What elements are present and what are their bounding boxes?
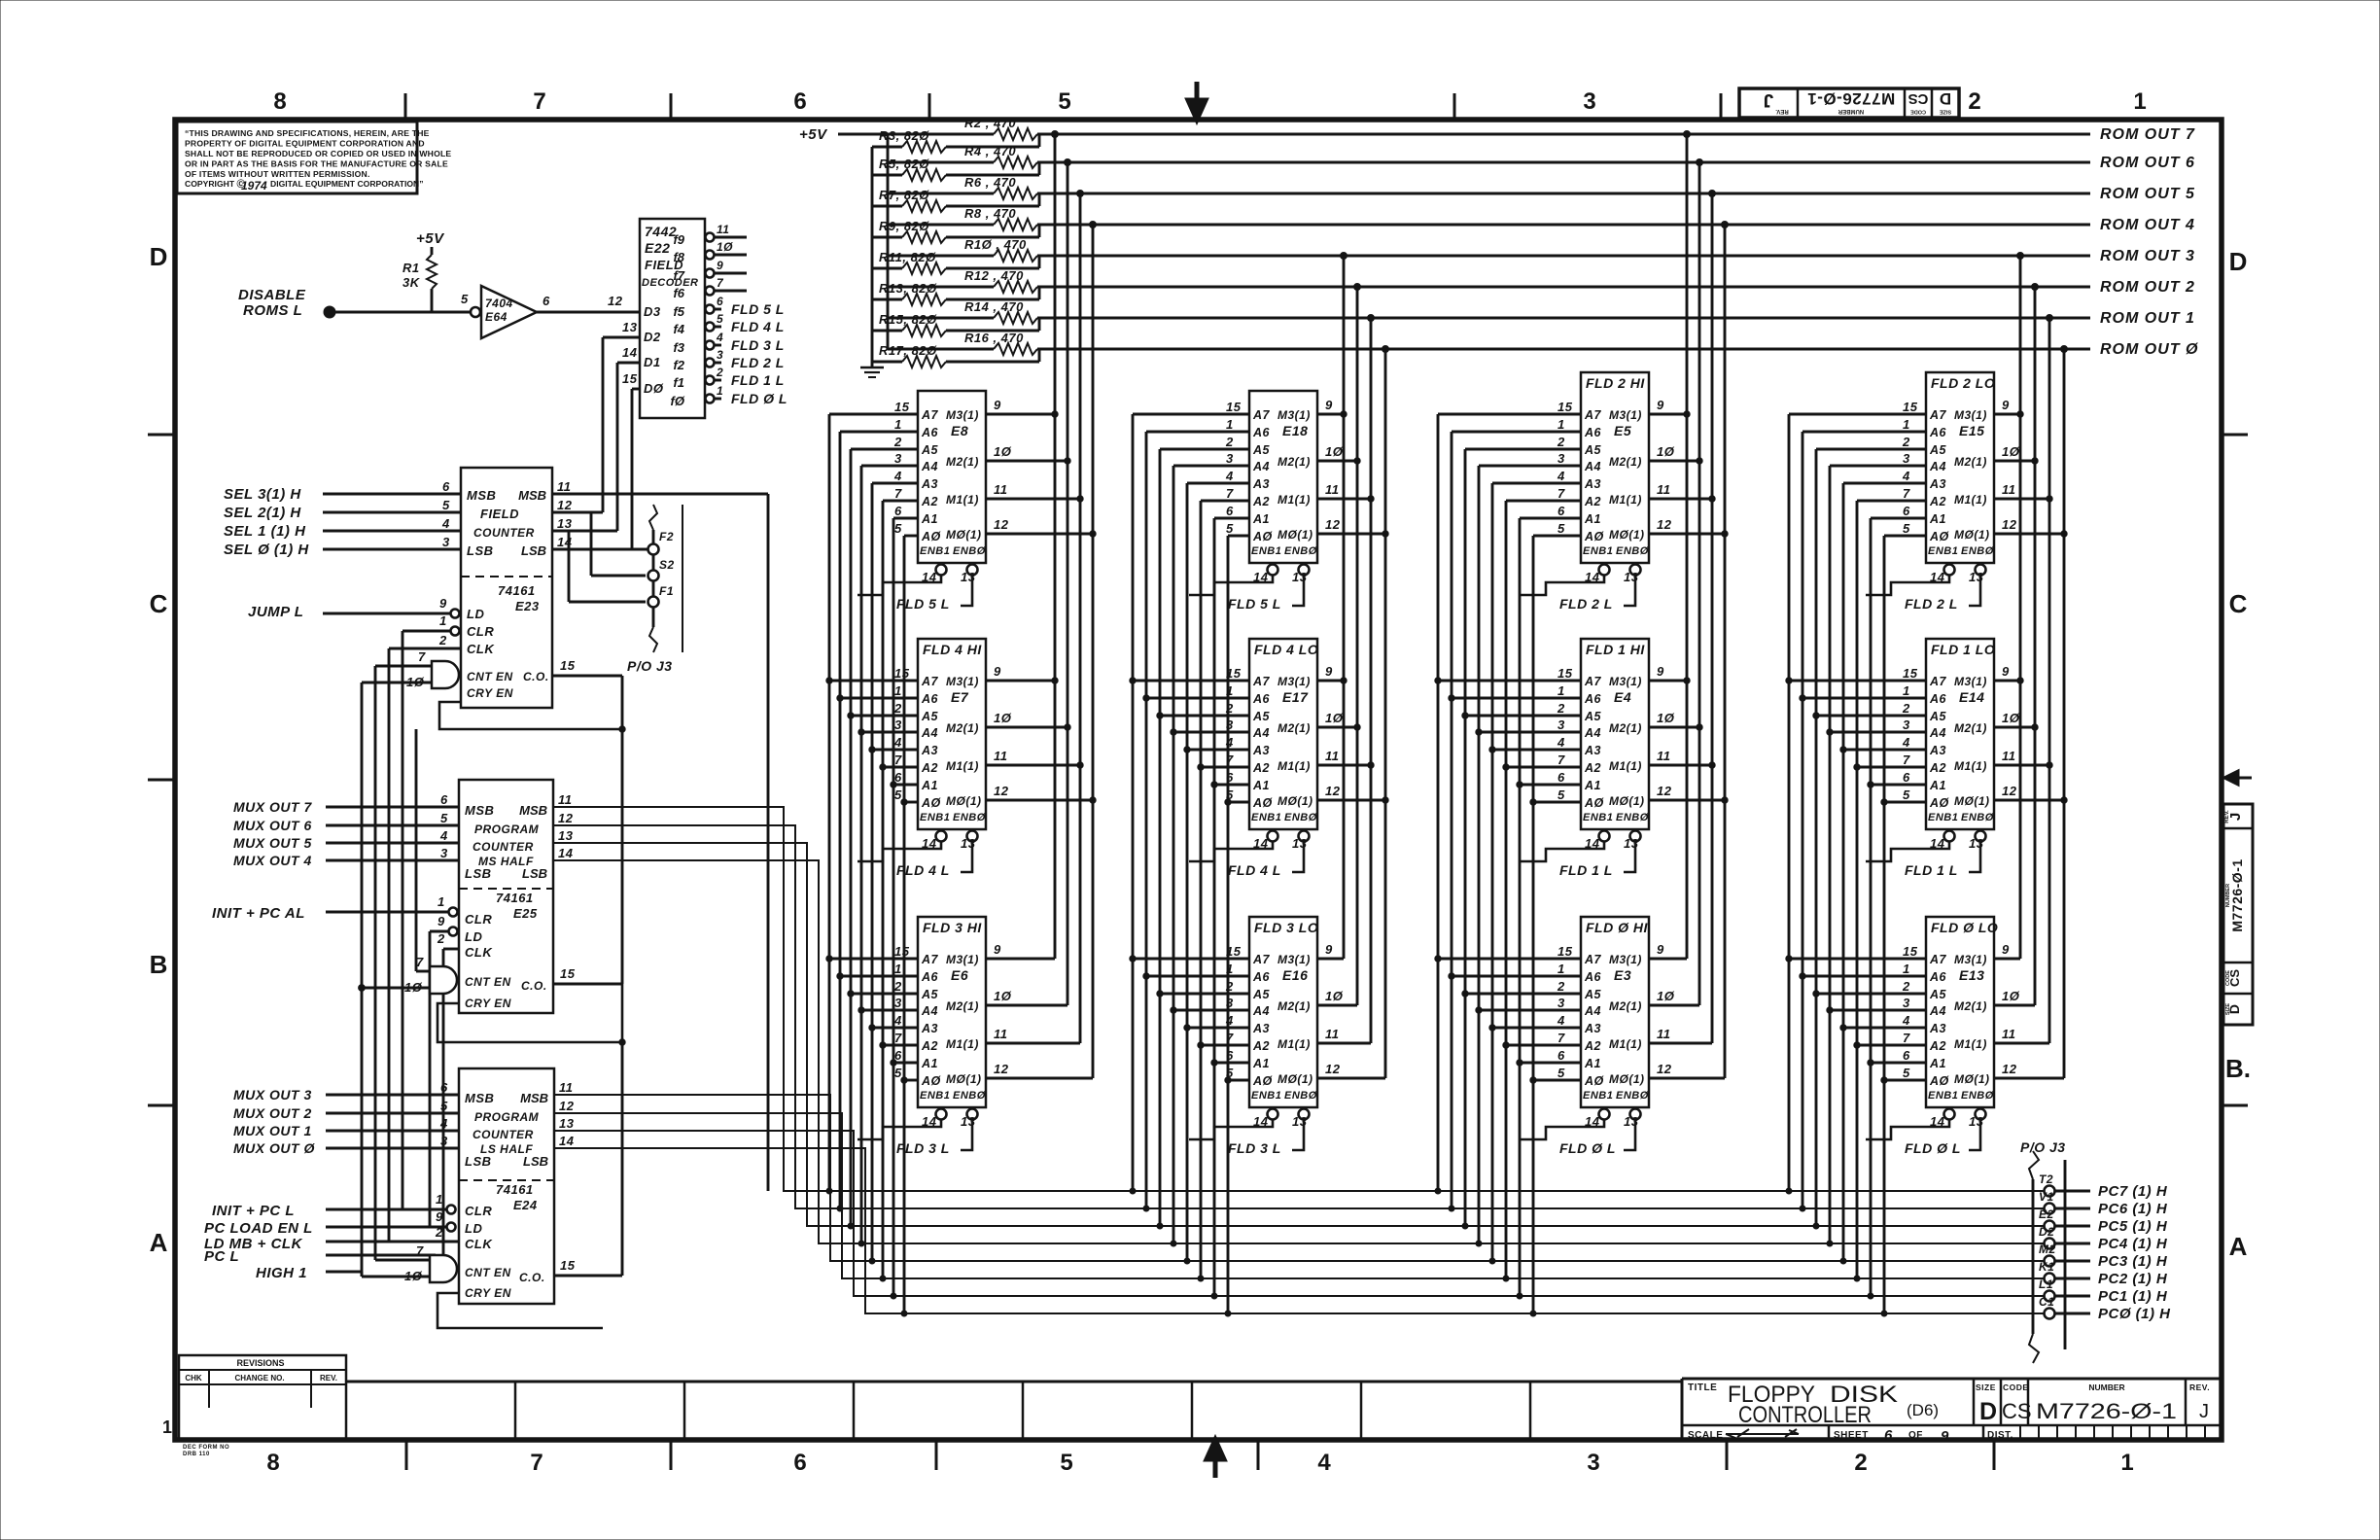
wire out M1 stub col1 row2 [986, 764, 1080, 767]
wire R5 left lead [872, 174, 902, 177]
svg-text:1Ø: 1Ø [2002, 444, 2020, 459]
svg-text:12: 12 [557, 498, 573, 512]
svg-text:DECODER: DECODER [642, 277, 699, 289]
svg-text:12: 12 [994, 784, 1009, 798]
svg-text:MØ(1): MØ(1) [1277, 1072, 1313, 1086]
svg-text:A6: A6 [921, 692, 939, 706]
wire MUX OUT &#216; [326, 1147, 459, 1150]
svg-text:A5: A5 [1584, 443, 1602, 457]
svg-text:4: 4 [1557, 469, 1565, 483]
svg-text:MØ(1): MØ(1) [1954, 528, 1990, 542]
wire PC4 staircase [553, 860, 2045, 1243]
svg-text:3: 3 [1903, 451, 1910, 466]
svg-text:M3(1): M3(1) [946, 953, 979, 966]
svg-text:C.O.: C.O. [519, 1271, 545, 1284]
svg-text:15: 15 [560, 966, 576, 981]
svg-text:1Ø: 1Ø [404, 1269, 423, 1283]
wire addr A6 stub col3 row2 [1452, 697, 1581, 700]
svg-text:9: 9 [994, 398, 1001, 412]
svg-text:M1(1): M1(1) [1954, 759, 1987, 773]
svg-text:M7726-Ø-1: M7726-Ø-1 [2229, 858, 2245, 931]
wire addr A6 stub col4 row1 [1802, 431, 1926, 434]
svg-text:A3: A3 [1252, 477, 1270, 491]
wire ROM OUT 3 row [1037, 255, 2090, 258]
wire addr A1 stub col1 row1 [893, 517, 918, 520]
svg-text:11: 11 [557, 479, 572, 494]
svg-text:3: 3 [1557, 717, 1565, 732]
svg-text:E7: E7 [951, 689, 969, 705]
wire out M1 stub col3 row2 [1649, 764, 1712, 767]
wire addr A6 stub col2 row2 [1146, 697, 1249, 700]
svg-text:ENBØ: ENBØ [1616, 812, 1649, 823]
svg-text:MØ(1): MØ(1) [946, 528, 982, 542]
connector P/O J3 (PC) [2020, 1139, 2066, 1363]
ROM E8 [857, 391, 1012, 612]
svg-text:M2(1): M2(1) [1277, 721, 1311, 735]
wire out M3 stub col3 row1 [1649, 413, 1687, 416]
wire R4 left lead [888, 161, 994, 164]
svg-text:5: 5 [1903, 1066, 1910, 1080]
svg-text:13: 13 [961, 570, 976, 584]
svg-text:ROM OUT 6: ROM OUT 6 [2100, 155, 2195, 171]
svg-text:MØ(1): MØ(1) [946, 794, 982, 808]
svg-text:MUX OUT 5: MUX OUT 5 [233, 835, 312, 851]
svg-text:13: 13 [558, 828, 574, 843]
svg-text:2: 2 [437, 931, 445, 946]
svg-text:D3: D3 [644, 304, 661, 319]
svg-text:A5: A5 [1929, 710, 1947, 723]
decoder output f4 pin 5 [673, 312, 784, 336]
svg-text:OF: OF [1908, 1430, 1923, 1441]
svg-text:M3(1): M3(1) [1609, 408, 1642, 422]
wire addr A0 stub col1 row1 [904, 535, 918, 538]
svg-text:9: 9 [1325, 942, 1333, 957]
bubble E24 CLR [447, 1206, 456, 1214]
svg-text:M7726-Ø-1: M7726-Ø-1 [2036, 1399, 2177, 1423]
wire addr A7 stub col1 row3 [829, 958, 918, 961]
svg-text:MUX OUT 6: MUX OUT 6 [233, 818, 312, 833]
wire addr A1 stub col3 row1 [1520, 517, 1581, 520]
svg-text:2: 2 [1902, 979, 1910, 994]
svg-text:E5: E5 [1614, 423, 1631, 438]
svg-text:E2: E2 [2039, 1207, 2054, 1221]
bottom strip divider [514, 1382, 517, 1440]
svg-text:1: 1 [1557, 962, 1565, 976]
wire addr A4 stub col3 row2 [1479, 731, 1581, 734]
svg-text:A6: A6 [1929, 692, 1947, 706]
wire MUX OUT 1 [326, 1130, 459, 1133]
svg-text:A7: A7 [1252, 953, 1271, 966]
resistor R13 820 [902, 294, 946, 305]
wire addr A1 stub col1 row3 [893, 1062, 918, 1065]
svg-text:9: 9 [1325, 664, 1333, 679]
svg-text:9: 9 [436, 1209, 443, 1224]
svg-text:C: C [2229, 589, 2248, 618]
svg-text:FLD Ø L: FLD Ø L [1905, 1140, 1961, 1156]
wire out M1 stub col2 row1 [1317, 498, 1371, 501]
svg-text:FLD 3 HI: FLD 3 HI [923, 920, 982, 935]
svg-text:FLD 1 LO: FLD 1 LO [1931, 642, 1995, 657]
svg-text:R9, 82Ø: R9, 82Ø [879, 219, 929, 233]
wire out M0 stub col1 row1 [986, 533, 1093, 536]
svg-text:M2(1): M2(1) [946, 721, 979, 735]
svg-text:A6: A6 [1252, 970, 1271, 984]
wire addr A1 stub col1 row2 [893, 784, 918, 787]
wire out M2 vertical col1 [1067, 162, 1069, 1005]
svg-text:M3(1): M3(1) [1954, 408, 1987, 422]
svg-text:DØ: DØ [644, 381, 664, 396]
wire addr A3 bundle col2 [1186, 483, 1189, 1261]
wire SEL 3(1) H [323, 493, 461, 496]
svg-text:9: 9 [2002, 398, 2010, 412]
svg-text:FLD 2 HI: FLD 2 HI [1586, 375, 1645, 391]
ROM E7 [857, 639, 1012, 878]
svg-text:2: 2 [1902, 435, 1910, 449]
svg-text:M2(1): M2(1) [1609, 455, 1642, 469]
wire out M0 stub col4 row1 [1994, 533, 2064, 536]
svg-text:7: 7 [894, 486, 902, 501]
wire addr A3 stub col4 row1 [1843, 482, 1926, 485]
svg-text:MUX OUT 7: MUX OUT 7 [233, 799, 312, 815]
svg-text:SHEET: SHEET [1834, 1430, 1869, 1441]
svg-text:9: 9 [437, 914, 445, 928]
wire SEL 2(1) H [323, 511, 461, 514]
svg-text:1: 1 [1903, 962, 1910, 976]
svg-text:CODE: CODE [2003, 1382, 2029, 1392]
svg-text:A1: A1 [1252, 512, 1270, 526]
wire addr A7 bundle col1 [828, 414, 831, 1191]
wire addr A7 stub col4 row3 [1789, 958, 1926, 961]
wire R12 left lead [888, 286, 994, 289]
svg-text:A6: A6 [1584, 970, 1602, 984]
svg-text:E18: E18 [1282, 423, 1308, 438]
svg-text:9: 9 [439, 596, 447, 611]
ROM E6 [857, 917, 1012, 1156]
svg-text:9: 9 [1657, 664, 1664, 679]
wire addr A4 bundle col1 [860, 466, 863, 1243]
svg-text:PCØ (1) H: PCØ (1) H [2098, 1306, 2171, 1322]
wire addr A4 stub col1 row2 [861, 731, 918, 734]
svg-text:M2(1): M2(1) [1954, 999, 1987, 1013]
svg-text:E23: E23 [515, 599, 540, 613]
svg-text:6: 6 [717, 295, 723, 308]
svg-text:B.: B. [2225, 1054, 2251, 1083]
svg-text:A3: A3 [1929, 744, 1946, 757]
svg-text:12: 12 [1325, 1062, 1341, 1076]
wire addr A0 stub col4 row3 [1884, 1079, 1926, 1082]
svg-text:15: 15 [1226, 400, 1242, 414]
svg-text:5: 5 [461, 292, 469, 306]
svg-text:12: 12 [1657, 784, 1672, 798]
resistor R1&#216; 470 [994, 250, 1037, 262]
wire out M2 vertical col4 [2034, 287, 2037, 1005]
svg-text:A7: A7 [1929, 953, 1947, 966]
wire addr A5 stub col4 row3 [1816, 993, 1926, 996]
svg-text:9: 9 [994, 942, 1001, 957]
wire PC0 staircase [554, 1148, 2045, 1313]
svg-text:SEL 3(1) H: SEL 3(1) H [224, 486, 301, 503]
svg-text:6: 6 [793, 1450, 806, 1476]
svg-text:D: D [2229, 247, 2248, 276]
svg-text:A7: A7 [921, 408, 939, 422]
svg-text:FLD 2 L: FLD 2 L [731, 355, 785, 370]
decoder output f7 pin 9 [673, 259, 747, 283]
svg-text:9: 9 [2002, 942, 2010, 957]
svg-text:A1: A1 [921, 512, 938, 526]
bottom strip divider [1529, 1382, 1532, 1440]
wire out M1 vertical col1 [1079, 193, 1082, 1043]
wire ROM OUT 7 row [1037, 133, 2090, 136]
svg-text:V1: V1 [2039, 1190, 2054, 1204]
svg-text:4: 4 [716, 331, 723, 344]
svg-text:MØ(1): MØ(1) [946, 1072, 982, 1086]
svg-text:A5: A5 [1252, 988, 1271, 1001]
wire R14 left lead [888, 317, 994, 320]
svg-text:FLD 1 HI: FLD 1 HI [1586, 642, 1645, 657]
svg-text:8: 8 [266, 1450, 279, 1476]
bubble E23 CLR [451, 627, 460, 636]
wire addr A6 bundle col2 [1145, 432, 1148, 1208]
svg-text:MSB: MSB [465, 1091, 494, 1105]
svg-text:A2: A2 [1584, 1039, 1601, 1053]
svg-text:5: 5 [1557, 521, 1565, 536]
svg-text:11: 11 [558, 792, 573, 807]
border tick top [928, 93, 931, 120]
svg-text:5: 5 [1903, 787, 1910, 802]
wire E24 CNTEN a [375, 1259, 430, 1262]
bottom strip divider [1191, 1382, 1194, 1440]
border tick bottom [1726, 1440, 1729, 1470]
wire addr A3 stub col2 row3 [1187, 1027, 1249, 1030]
svg-text:12: 12 [1657, 1062, 1672, 1076]
border tick right [2222, 1104, 2248, 1107]
wire addr A6 stub col1 row1 [840, 431, 918, 434]
svg-text:A1: A1 [921, 779, 938, 792]
svg-text:R1: R1 [402, 261, 420, 275]
bubble E25 LD [449, 927, 458, 936]
wire addr A6 stub col2 row3 [1146, 975, 1249, 978]
wire out M0 stub col3 row2 [1649, 799, 1725, 802]
wire PC3 staircase [554, 1095, 2045, 1261]
svg-text:2: 2 [1968, 88, 1980, 115]
svg-text:JUMP L: JUMP L [248, 604, 303, 620]
svg-text:E64: E64 [485, 310, 507, 324]
wire R17 left lead [872, 361, 902, 364]
svg-text:13: 13 [557, 516, 573, 531]
wire E25 CLK [443, 948, 459, 951]
wire addr A7 stub col1 row1 [829, 413, 918, 416]
svg-text:13: 13 [622, 320, 638, 334]
svg-text:12: 12 [994, 1062, 1009, 1076]
node DISABLE ROMS L [324, 306, 335, 318]
svg-text:MSB: MSB [467, 488, 496, 503]
svg-text:2: 2 [435, 1225, 443, 1240]
wire addr A2 stub col2 row2 [1201, 766, 1249, 769]
svg-text:+5V: +5V [799, 126, 828, 143]
svg-text:R17, 82Ø: R17, 82Ø [879, 343, 937, 358]
wire addr A7 stub col3 row3 [1438, 958, 1581, 961]
wire out M1 stub col4 row3 [1994, 1042, 2049, 1045]
svg-text:B: B [150, 950, 168, 979]
wire F1 tap [568, 531, 571, 602]
wire R8 left lead [888, 224, 994, 227]
svg-text:ENBØ: ENBØ [1961, 545, 1994, 557]
svg-text:3: 3 [1903, 717, 1910, 732]
svg-text:PROGRAM: PROGRAM [474, 1110, 540, 1124]
wire addr A4 stub col3 row3 [1479, 1009, 1581, 1012]
svg-text:CNT EN: CNT EN [467, 670, 513, 683]
wire addr A5 stub col2 row1 [1160, 448, 1249, 451]
svg-text:ROM OUT 5: ROM OUT 5 [2100, 186, 2195, 202]
wire addr A7 stub col4 row2 [1789, 680, 1926, 682]
wire PC2 staircase [554, 1113, 2045, 1278]
wire addr A4 stub col2 row3 [1173, 1009, 1249, 1012]
svg-text:A5: A5 [1929, 988, 1947, 1001]
wire ROM OUT 2 row [1037, 286, 2090, 289]
resistor R15 820 [902, 325, 946, 336]
svg-text:11: 11 [2002, 1027, 2016, 1041]
svg-text:3: 3 [717, 348, 723, 362]
svg-text:1: 1 [1226, 417, 1234, 432]
svg-text:15: 15 [560, 658, 576, 673]
wire out M3 stub col1 row1 [986, 413, 1055, 416]
svg-text:MSB: MSB [519, 803, 547, 818]
wire +5V feed [838, 133, 994, 136]
svg-text:A6: A6 [921, 970, 939, 984]
svg-text:3: 3 [894, 717, 902, 732]
svg-text:1: 1 [437, 894, 445, 909]
bottom strip divider [1022, 1382, 1025, 1440]
svg-text:11: 11 [1325, 482, 1340, 497]
svg-text:FLD Ø L: FLD Ø L [731, 391, 787, 406]
wire out M0 stub col4 row2 [1994, 799, 2064, 802]
svg-text:MUX OUT 3: MUX OUT 3 [233, 1087, 312, 1102]
wire R13 junction [946, 298, 1039, 301]
wire R9 junction [946, 236, 1039, 239]
svg-text:ENBØ: ENBØ [1961, 1090, 1994, 1102]
svg-text:9: 9 [717, 259, 723, 272]
wire HIGH 1 [326, 1271, 362, 1274]
wire addr A7 bundle col4 [1788, 414, 1791, 1191]
svg-text:74161: 74161 [496, 891, 534, 905]
svg-text:A5: A5 [921, 710, 939, 723]
wire addr A5 stub col2 row2 [1160, 715, 1249, 717]
wire MUX OUT 2 [326, 1112, 459, 1115]
wire addr A1 stub col2 row3 [1214, 1062, 1249, 1065]
svg-text:6: 6 [1903, 504, 1910, 518]
svg-text:1: 1 [1557, 417, 1565, 432]
svg-text:5: 5 [894, 1066, 902, 1080]
svg-text:9: 9 [1941, 1428, 1949, 1445]
svg-text:1: 1 [436, 1192, 443, 1207]
svg-text:DIST.: DIST. [1987, 1430, 2013, 1441]
wire addr A4 bundle col2 [1172, 466, 1175, 1243]
wire addr A2 bundle col3 [1505, 501, 1508, 1278]
wire out M0 stub col1 row3 [986, 1077, 1093, 1080]
wire addr A0 stub col2 row1 [1228, 535, 1249, 538]
wire out M3 stub col3 row3 [1649, 958, 1687, 961]
wire R1&#216; left lead [888, 255, 994, 258]
svg-text:MSB: MSB [520, 1091, 548, 1105]
wire MUX OUT 7 [326, 806, 459, 809]
svg-text:6: 6 [442, 479, 450, 494]
svg-text:f1: f1 [673, 375, 684, 390]
svg-text:f7: f7 [673, 268, 684, 283]
svg-text:1Ø: 1Ø [994, 989, 1012, 1003]
wire out M2 stub col1 row3 [986, 1004, 1067, 1007]
svg-text:MSB: MSB [465, 803, 494, 818]
wire addr A7 stub col2 row1 [1133, 413, 1249, 416]
svg-text:A1: A1 [921, 1057, 938, 1070]
wire out M1 stub col4 row2 [1994, 764, 2049, 767]
svg-text:A3: A3 [1252, 744, 1270, 757]
svg-text:12: 12 [558, 811, 574, 825]
svg-text:ROM OUT 7: ROM OUT 7 [2100, 126, 2195, 143]
wire R7 junction [946, 205, 1039, 208]
svg-text:M3(1): M3(1) [1277, 953, 1311, 966]
wire out M0 stub col2 row3 [1317, 1077, 1385, 1080]
svg-text:1Ø: 1Ø [1657, 989, 1675, 1003]
svg-text:15: 15 [1557, 944, 1573, 959]
svg-text:5: 5 [1557, 1066, 1565, 1080]
svg-text:M1(1): M1(1) [1609, 1037, 1642, 1051]
svg-text:M1(1): M1(1) [1954, 1037, 1987, 1051]
wire E24 CO [554, 1275, 622, 1277]
svg-text:FLD Ø L: FLD Ø L [1559, 1140, 1616, 1156]
svg-text:8: 8 [273, 88, 286, 115]
border tick bottom [1993, 1440, 1996, 1470]
svg-text:CONTROLLER: CONTROLLER [1738, 1402, 1872, 1428]
svg-text:R3, 82Ø: R3, 82Ø [879, 128, 929, 143]
svg-text:S2: S2 [659, 558, 675, 572]
svg-text:(D6): (D6) [1907, 1401, 1939, 1419]
svg-text:13: 13 [961, 836, 976, 851]
wire E23 out12 [552, 511, 603, 514]
svg-text:6: 6 [1884, 1427, 1893, 1444]
svg-text:7: 7 [894, 1031, 902, 1045]
svg-text:C1: C1 [2039, 1295, 2054, 1309]
ROM E17 [1189, 639, 1344, 878]
wire addr A7 stub col4 row1 [1789, 413, 1926, 416]
svg-text:4: 4 [439, 828, 448, 843]
svg-text:A2: A2 [1252, 1039, 1270, 1053]
svg-text:ENB1: ENB1 [1928, 1090, 1958, 1102]
svg-text:AØ: AØ [921, 1074, 942, 1088]
wire out M0 vertical col3 [1724, 225, 1727, 1078]
svg-text:A6: A6 [1584, 692, 1602, 706]
svg-text:A5: A5 [1584, 710, 1602, 723]
copyright text [185, 128, 451, 192]
wire R17 junction [946, 361, 1039, 364]
svg-text:PC4 (1) H: PC4 (1) H [2098, 1236, 2168, 1252]
svg-text:M2(1): M2(1) [1609, 721, 1642, 735]
svg-text:M3(1): M3(1) [1609, 953, 1642, 966]
border tick left [148, 434, 175, 437]
wire out M2 stub col3 row1 [1649, 460, 1699, 463]
svg-text:A1: A1 [1584, 779, 1601, 792]
svg-text:7442: 7442 [645, 224, 677, 239]
svg-text:PC7 (1) H: PC7 (1) H [2098, 1183, 2168, 1200]
svg-text:ENB1: ENB1 [1583, 545, 1613, 557]
svg-text:74161: 74161 [496, 1182, 534, 1197]
svg-text:FLD 3 L: FLD 3 L [731, 337, 785, 353]
svg-text:CLK: CLK [465, 945, 493, 960]
svg-text:CODE: CODE [2225, 970, 2231, 986]
wire out M2 stub col1 row2 [986, 726, 1067, 729]
wire R16 left lead [888, 348, 994, 351]
wire addr A4 stub col2 row1 [1173, 465, 1249, 468]
wire ROM OUT &#216; row [1037, 348, 2090, 351]
